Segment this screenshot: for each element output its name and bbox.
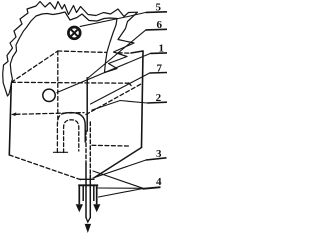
tank back-top right solid segment	[131, 51, 143, 53]
tank top-left receding edge (dashed)	[11, 51, 58, 82]
reference numeral 4	[143, 176, 163, 189]
tank top-front edge (dashed)	[11, 81, 129, 84]
siphon tube outer wall top and right leg	[62, 113, 85, 142]
siphon tube outer wall left leg (dashed)	[57, 114, 62, 153]
reference numeral 6	[146, 19, 167, 31]
reference numeral 2	[147, 92, 167, 104]
leader line to numeral 5	[80, 12, 146, 26]
level line arrowhead	[11, 112, 16, 116]
right outlet arm	[96, 186, 98, 204]
siphon tube left foot line	[54, 151, 68, 153]
drain pipe right wall hidden part (dashed)	[89, 122, 91, 175]
tank hopper left sloping edge (dashed)	[9, 155, 83, 181]
burner symbol circle (circled X)	[68, 27, 80, 39]
leader line to numeral 7	[91, 73, 150, 104]
spray head horizontal bar	[78, 184, 98, 186]
overflow pipe upper section	[86, 78, 88, 131]
right outlet arrowhead	[93, 204, 100, 212]
burner symbol X stroke 1	[71, 30, 78, 37]
tank hopper right sloping edge	[95, 148, 142, 178]
svg-text:4: 4	[156, 176, 162, 188]
bottom flow arrowhead	[85, 224, 90, 232]
inlet circle	[43, 89, 55, 101]
reference numeral 5	[146, 2, 167, 14]
liquid level dashed line	[16, 113, 84, 115]
reference numeral 7	[150, 62, 167, 74]
drain pipe taper	[86, 218, 90, 223]
tank back-top edge (dashed)	[58, 51, 131, 53]
tank right edge	[142, 51, 144, 148]
siphon tube inner wall (dashed n-shape)	[64, 120, 79, 153]
leader line to numeral 4 middle	[98, 187, 144, 189]
spray head body right wall	[93, 186, 95, 201]
tank lower dashed horizontal edge	[92, 144, 129, 147]
leader line to numeral 6	[88, 30, 146, 78]
left outlet arm	[78, 186, 80, 204]
leader line to numeral 4 lower	[99, 189, 144, 198]
reference numeral 3	[146, 148, 167, 160]
tank back-left vertical edge (dashed)	[57, 51, 59, 120]
leader line to numeral 2	[92, 101, 147, 111]
burner symbol X stroke 2	[71, 30, 78, 37]
leader line to numeral 4 upper	[93, 171, 143, 188]
flame plume (white filled band)	[3, 2, 138, 97]
spray head body left wall	[82, 186, 84, 201]
leader line to numeral 3	[93, 160, 146, 178]
drain pipe left wall	[85, 164, 87, 218]
front-right corner dashed stub	[129, 83, 132, 86]
pipe flange line	[80, 178, 94, 180]
internal inclined dashed line	[86, 84, 141, 115]
leader line to numeral 1	[57, 53, 150, 92]
left outlet arrowhead	[76, 204, 83, 212]
tank front-left vertical edge	[9, 82, 11, 155]
reference numeral 1	[150, 43, 167, 55]
drain pipe left wall hidden part (dashed)	[85, 131, 87, 164]
drain pipe right wall	[89, 175, 91, 218]
